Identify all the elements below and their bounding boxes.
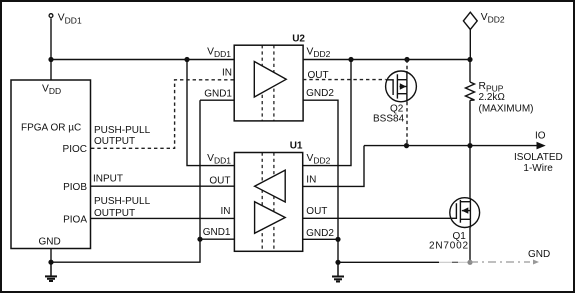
svg-text:1-Wire: 1-Wire <box>523 163 553 174</box>
wire Q2 drain (dashed) <box>406 102 408 146</box>
node VDD1 rail to U1 branch <box>184 57 189 62</box>
svg-text:GND2: GND2 <box>306 228 334 239</box>
resistor RPUP <box>466 60 534 146</box>
svg-text:OUT: OUT <box>209 175 230 186</box>
svg-text:INPUT: INPUT <box>93 174 123 185</box>
wire Q1 drain <box>469 146 471 198</box>
wire VDD1 rail <box>51 59 234 61</box>
wire U1 GND1 <box>200 238 234 240</box>
svg-text:VDD1: VDD1 <box>207 153 231 166</box>
svg-text:BSS84: BSS84 <box>373 114 405 125</box>
VDD1 supply terminal <box>49 13 82 26</box>
wire U1 OUT to Q1 gate <box>303 217 456 219</box>
svg-text:IN: IN <box>306 175 316 186</box>
svg-text:VDD1: VDD1 <box>207 47 231 60</box>
wire GND continuation arrow <box>470 260 539 265</box>
wire IO line <box>364 145 538 147</box>
node IO Q2 drain junction <box>404 143 409 148</box>
label push-pull output PIOA <box>94 196 151 219</box>
wire U1 GND2 <box>303 238 338 240</box>
wire U2 OUT to Q2 gate (dashed) <box>303 79 386 81</box>
svg-text:PIOB: PIOB <box>63 182 87 193</box>
IO arrowhead <box>537 142 546 150</box>
wire PIOA to U1 IN <box>91 217 234 219</box>
svg-text:VDD2: VDD2 <box>307 153 331 166</box>
node VDD2 rail to U1 VDD2 <box>348 57 353 62</box>
wire U1 VDD2 feed <box>303 60 351 166</box>
svg-text:IN: IN <box>221 206 231 217</box>
wire VDD1 stem <box>50 18 52 80</box>
svg-text:PUSH-PULL: PUSH-PULL <box>94 125 151 136</box>
svg-text:GND1: GND1 <box>204 89 232 100</box>
svg-text:2.2kΩ: 2.2kΩ <box>479 92 506 103</box>
wire isolated ground rail <box>338 261 439 263</box>
svg-text:ISOLATED: ISOLATED <box>514 152 563 163</box>
svg-text:GND1: GND1 <box>203 227 231 238</box>
svg-text:GND: GND <box>528 249 550 260</box>
node GND2 junction <box>335 237 340 242</box>
node Q1 source junction <box>467 260 472 265</box>
op-amp U1 bidirectional isolator <box>203 140 335 251</box>
svg-text:PIOC: PIOC <box>63 144 87 155</box>
node VDD2 rail end junction <box>467 57 472 62</box>
transistor Q2 <box>386 71 417 102</box>
svg-text:VDD: VDD <box>42 84 61 97</box>
VDD2 supply terminal <box>463 12 504 30</box>
wire PIOB to U1 OUT <box>91 185 234 187</box>
svg-text:OUTPUT: OUTPUT <box>94 136 135 147</box>
svg-text:2N7002: 2N7002 <box>429 241 469 252</box>
wire U1 VDD1 feed <box>187 60 234 166</box>
label Q2 <box>373 103 405 124</box>
wire Q1 source <box>469 228 471 263</box>
transistor Q1 <box>450 198 480 228</box>
wire PIOC to U2 IN (dashed) <box>91 80 234 149</box>
svg-text:OUTPUT: OUTPUT <box>94 208 135 219</box>
wire U2 GND2 <box>303 100 338 262</box>
wire VDD2 stem <box>469 30 471 60</box>
svg-text:VDD1: VDD1 <box>58 13 82 26</box>
svg-text:PIOA: PIOA <box>63 214 87 225</box>
wire Q2 source (dashed) <box>406 60 408 72</box>
node FPGA GND junction <box>48 260 53 265</box>
svg-text:VDD2: VDD2 <box>481 12 505 25</box>
wire FPGA GND stem <box>50 249 52 263</box>
svg-text:IN: IN <box>222 68 232 79</box>
node GND1 junction <box>197 237 202 242</box>
svg-text:U2: U2 <box>292 33 305 44</box>
wire U2 GND1 <box>200 99 234 101</box>
wire U1 IN to IO node <box>303 146 364 187</box>
node bottom rail GND2 junction <box>335 260 340 265</box>
svg-text:FPGA OR µC: FPGA OR µC <box>21 123 81 134</box>
wire FPGA GND to GND1 riser <box>51 100 200 262</box>
ground (FPGA side) <box>45 262 57 281</box>
node IO pullup junction <box>467 143 472 148</box>
svg-text:VDD2: VDD2 <box>307 47 331 60</box>
svg-text:U1: U1 <box>290 140 303 151</box>
wire VDD2 rail <box>303 59 470 61</box>
node VDD2 rail to Q2 source <box>404 57 409 62</box>
ground (isolated side) <box>332 262 344 281</box>
wire isolated ground rail faint segment <box>439 261 470 263</box>
node VDD1 stem junction <box>48 57 53 62</box>
svg-text:IO: IO <box>535 130 546 141</box>
label push-pull output PIOC <box>94 125 151 147</box>
svg-text:GND: GND <box>39 237 61 248</box>
svg-text:(MAXIMUM): (MAXIMUM) <box>479 103 534 114</box>
op-amp U2 digital isolator <box>204 33 334 121</box>
svg-text:PUSH-PULL: PUSH-PULL <box>94 196 151 207</box>
svg-text:GND2: GND2 <box>306 88 334 99</box>
label Q1 <box>429 231 469 252</box>
svg-text:OUT: OUT <box>306 206 327 217</box>
FPGA box <box>11 80 91 249</box>
